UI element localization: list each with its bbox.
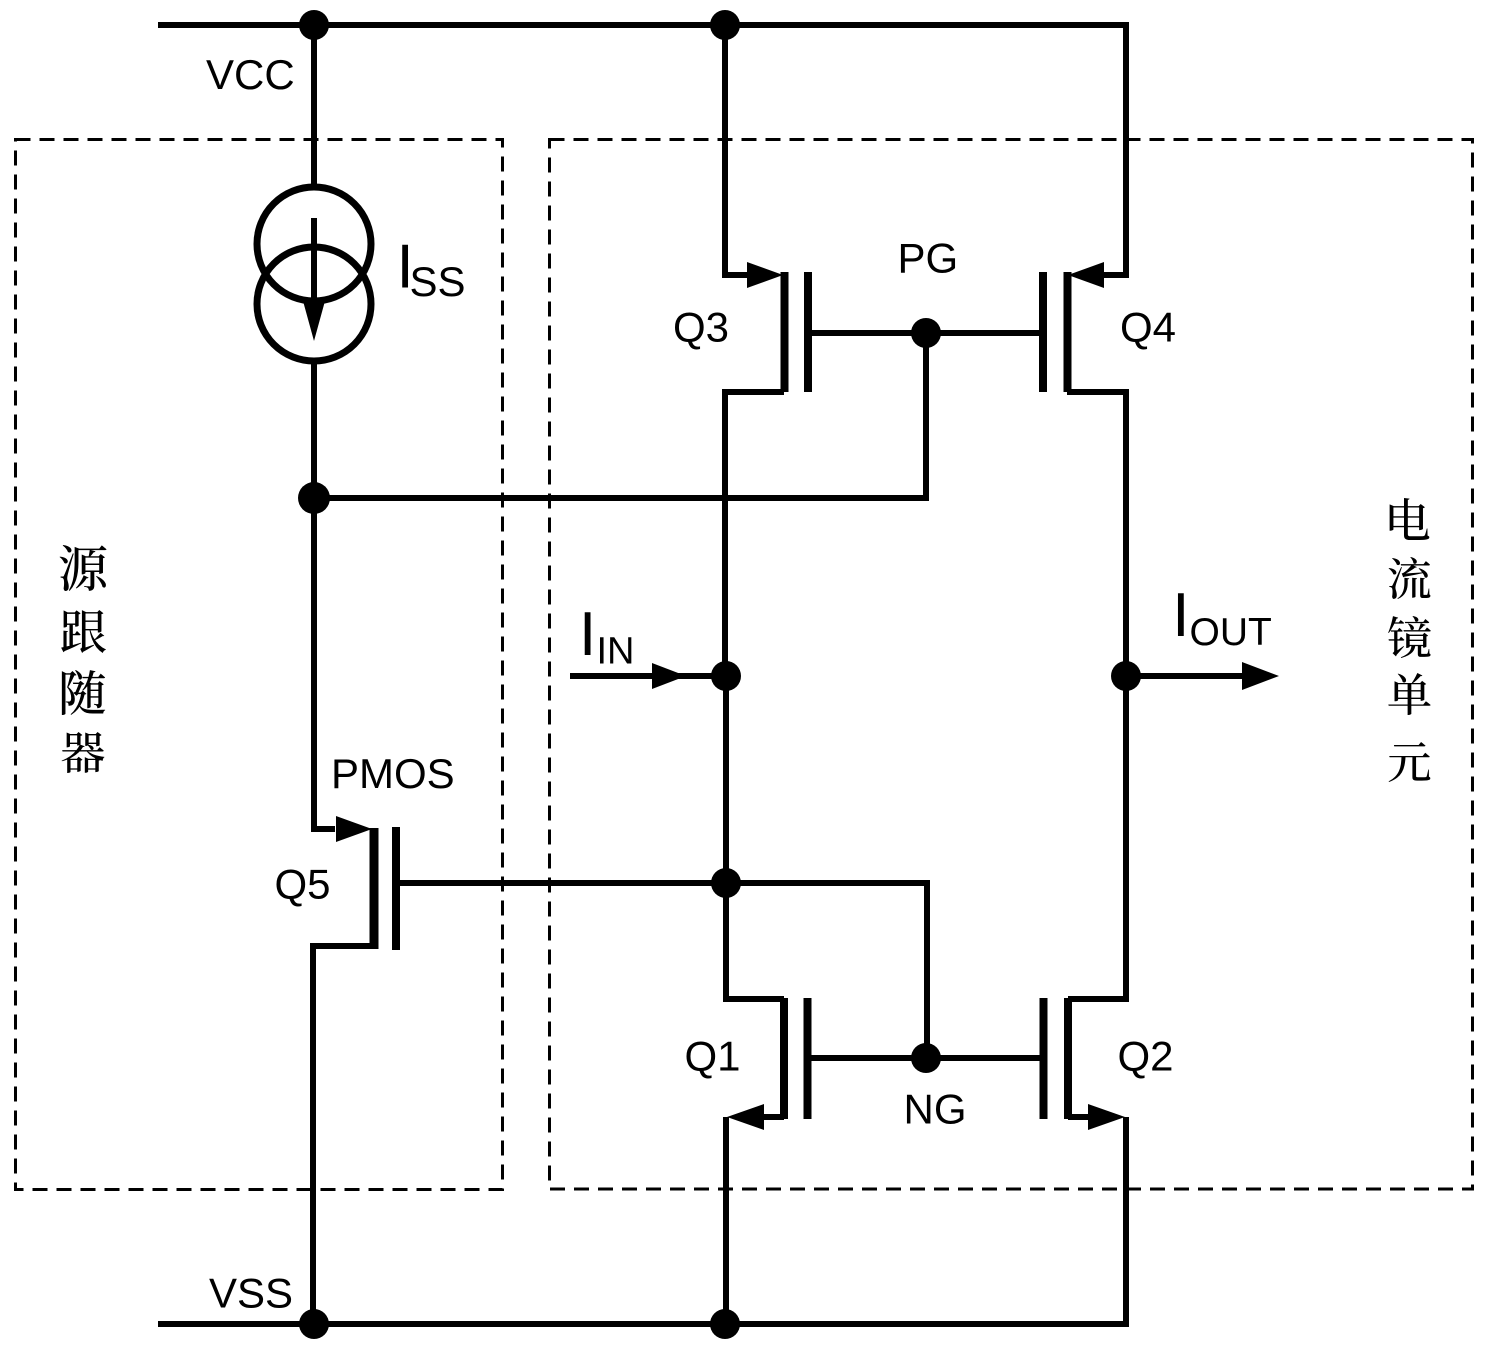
node IOUT junction dot	[1111, 661, 1141, 691]
node IIN junction dot	[711, 661, 741, 691]
wire NG gate bus	[808, 1055, 1043, 1061]
svg-text:VSS: VSS	[209, 1270, 293, 1317]
svg-text:VCC: VCC	[206, 51, 295, 98]
transistor Q2 source arrow	[1088, 1104, 1125, 1130]
transistor Q2 drain wire	[1068, 676, 1126, 999]
transistor Q3 source arrow	[747, 262, 783, 288]
label source-follower char 3 (sui)	[62, 670, 105, 715]
transistor Q5 drain wire	[313, 946, 374, 1324]
svg-text:SS: SS	[410, 258, 466, 305]
transistor Q5 gate bar	[392, 827, 400, 950]
current-mirror dashed box	[550, 140, 1473, 1190]
transistor Q1 gate bar	[804, 998, 812, 1119]
transistor Q4 source arrow	[1068, 262, 1104, 288]
wire VCC rail	[158, 22, 1126, 28]
svg-text:PG: PG	[898, 235, 959, 282]
transistor Q5 source arrow	[336, 816, 372, 842]
node PG junction dot	[911, 318, 941, 348]
current source ISS circle lower	[257, 247, 371, 361]
label current-mirror char 4 (dan)	[1388, 673, 1430, 715]
node A junction dot	[298, 482, 330, 514]
node VSS-Q5 junction	[299, 1309, 329, 1339]
svg-text:PMOS: PMOS	[331, 750, 455, 797]
node B junction dot	[711, 868, 741, 898]
wire node A to PG	[314, 330, 926, 498]
transistor Q5 gate wire	[399, 880, 726, 886]
label current-mirror char 3 (jing)	[1388, 616, 1431, 658]
transistor Q3 drain wire	[725, 392, 784, 676]
svg-text:IN: IN	[597, 631, 635, 673]
svg-text:Q5: Q5	[275, 861, 331, 908]
transistor Q1 source arrow	[727, 1104, 764, 1130]
wire IIN node to node B	[723, 676, 729, 883]
current source ISS arrow	[311, 218, 317, 305]
wire node B to NG	[726, 883, 927, 1058]
label source-follower char 4 (qi)	[62, 732, 105, 773]
transistor Q4 drain wire	[1067, 392, 1126, 676]
svg-text:Q1: Q1	[685, 1033, 741, 1080]
transistor Q3 channel bar	[781, 272, 789, 392]
svg-text:I: I	[579, 600, 596, 669]
transistor Q2 source wire	[1068, 1117, 1126, 1327]
wire current source to Q5 source	[311, 361, 317, 832]
label current-mirror char 2 (liu)	[1389, 557, 1431, 599]
svg-text:Q2: Q2	[1118, 1033, 1174, 1080]
label source-follower char 2 (gen)	[61, 610, 106, 653]
transistor Q3 source wire	[725, 22, 748, 275]
transistor Q1 source wire	[726, 1117, 784, 1324]
current IIN arrow	[570, 673, 726, 679]
transistor Q2 channel bar	[1064, 998, 1072, 1119]
transistor Q2 gate bar	[1040, 998, 1048, 1119]
transistor Q4 gate bar	[1039, 272, 1047, 392]
current IOUT arrow	[1126, 673, 1245, 679]
label source-follower char 1 (yuan)	[60, 545, 107, 591]
node VCC-ISS junction	[299, 10, 329, 40]
svg-text:I: I	[1172, 581, 1189, 650]
source-follower dashed box	[16, 140, 503, 1190]
transistor Q1 drain wire	[726, 883, 784, 999]
transistor Q3 gate bar	[804, 272, 812, 392]
current source ISS circle upper	[257, 187, 371, 301]
node VSS-Q1 junction	[710, 1309, 740, 1339]
svg-text:NG: NG	[904, 1086, 967, 1133]
node VCC-Q3 junction	[710, 10, 740, 40]
wire VSS rail	[158, 1321, 1126, 1327]
node NG junction dot	[911, 1043, 941, 1073]
transistor Q5 channel bar	[370, 828, 379, 949]
wire PG gate bus	[808, 330, 1043, 336]
wire VCC to current source	[311, 22, 317, 188]
transistor Q4 channel bar	[1064, 272, 1072, 392]
svg-text:Q4: Q4	[1120, 304, 1176, 351]
label current-mirror char 5 (yuan)	[1389, 742, 1431, 782]
transistor Q1 channel bar	[780, 998, 788, 1119]
svg-text:OUT: OUT	[1190, 611, 1272, 654]
transistor Q4 source wire	[1103, 22, 1126, 275]
transistor Q5 source wire	[313, 826, 335, 832]
svg-text:Q3: Q3	[673, 304, 729, 351]
label current-mirror char 1 (dian)	[1390, 498, 1430, 540]
